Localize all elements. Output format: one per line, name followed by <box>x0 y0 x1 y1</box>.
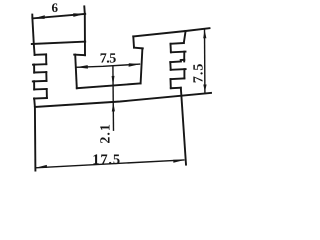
T-slot floor <box>77 83 141 88</box>
left slot 2 root <box>45 72 47 81</box>
2.1 dimension vertical line <box>112 66 115 131</box>
left block right edge / T-slot left lip face <box>83 6 86 55</box>
right slot 2 bottom edge <box>171 68 186 71</box>
left comb spine segment 1 <box>33 44 36 55</box>
left block bottom edge <box>32 42 85 44</box>
right edge bottom / 17.5 right extension line <box>181 88 186 165</box>
left comb fin 2 cap <box>33 81 35 89</box>
mid 7.5 left arrowhead <box>76 65 88 69</box>
right slot 1 top edge <box>171 42 184 45</box>
2.1 upper arrowhead (points down to floor) <box>112 76 115 86</box>
left slot 1 top edge <box>35 53 47 55</box>
right slot 1 root <box>170 44 172 53</box>
left slot 3 top edge <box>34 88 47 90</box>
right 7.5 dimension line <box>204 29 206 92</box>
svg-text:17.5: 17.5 <box>92 152 121 168</box>
right block top edge (extends right as dim extension) <box>133 28 209 36</box>
right fin 2 cap <box>183 69 185 78</box>
left bottom lip edge / 17.5 left extension line <box>34 98 35 170</box>
right 7.5 top arrowhead (points up) <box>203 30 206 38</box>
left slot 3 bottom edge <box>34 97 47 100</box>
right block left edge <box>132 36 135 47</box>
left comb fin 1 cap <box>33 65 35 73</box>
T-slot cavity left wall <box>75 55 77 89</box>
17.5 dimension line <box>36 160 185 168</box>
left slot 3 root <box>46 89 48 98</box>
right 7.5 bottom arrowhead (points down) <box>203 85 206 93</box>
right slot 3 bottom edge <box>171 87 181 90</box>
T-slot left lip underside <box>74 54 85 57</box>
left block left edge <box>32 15 34 44</box>
svg-text:7.5: 7.5 <box>100 51 117 66</box>
svg-text:2.1: 2.1 <box>99 123 114 144</box>
left slot 2 bottom edge <box>33 80 47 83</box>
left slot 1 root <box>45 54 47 64</box>
right slot 2 root <box>169 62 171 70</box>
mid 7.5 right arrowhead <box>129 63 141 67</box>
right slot 3 top edge <box>171 77 185 80</box>
right slot 3 root <box>170 79 172 88</box>
svg-text:7.5: 7.5 <box>192 63 207 84</box>
left block top edge (also 6-dim line) <box>32 14 85 19</box>
6-dim left arrowhead <box>33 15 45 19</box>
17.5 right arrowhead <box>173 160 184 163</box>
2.1 lower arrowhead (points up to base bottom) <box>112 102 115 112</box>
T-slot cavity right wall <box>141 48 143 83</box>
6-dim right arrowhead <box>73 13 85 17</box>
right fin 1 cap <box>183 52 185 62</box>
right slot 2 top edge <box>170 60 184 62</box>
left slot 1 bottom edge <box>33 63 46 66</box>
left slot 2 top edge <box>34 71 46 73</box>
right block right edge upper <box>184 31 186 43</box>
base bottom edge (extends right as dim extension) <box>35 93 211 107</box>
T-slot right lip underside <box>134 47 143 50</box>
mid 7.5 dimension line <box>76 64 140 67</box>
17.5 left arrowhead <box>36 165 47 168</box>
svg-text:6: 6 <box>52 0 59 15</box>
right slot 1 bottom edge <box>171 51 186 54</box>
